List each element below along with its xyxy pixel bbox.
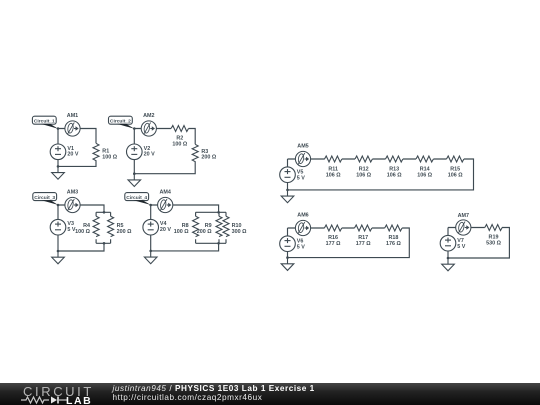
svg-text:Circuit_3: Circuit_3 bbox=[34, 195, 55, 201]
svg-text:176 Ω: 176 Ω bbox=[386, 241, 401, 247]
svg-text:20 V: 20 V bbox=[160, 227, 171, 233]
svg-text:300 Ω: 300 Ω bbox=[232, 229, 247, 235]
svg-text:20 V: 20 V bbox=[144, 152, 155, 158]
svg-text:106 Ω: 106 Ω bbox=[448, 173, 463, 179]
svg-text:AM7: AM7 bbox=[458, 213, 469, 219]
svg-text:177 Ω: 177 Ω bbox=[356, 241, 371, 247]
svg-text:5 V: 5 V bbox=[297, 175, 305, 181]
svg-text:5 V: 5 V bbox=[457, 244, 465, 250]
svg-text:AM5: AM5 bbox=[297, 143, 308, 149]
svg-text:177 Ω: 177 Ω bbox=[326, 241, 341, 247]
svg-text:20 V: 20 V bbox=[67, 152, 78, 158]
svg-text:Circuit_4: Circuit_4 bbox=[126, 195, 147, 201]
svg-text:100 Ω: 100 Ω bbox=[75, 229, 90, 235]
svg-text:100 Ω: 100 Ω bbox=[172, 141, 187, 147]
svg-text:106 Ω: 106 Ω bbox=[417, 173, 432, 179]
svg-text:106 Ω: 106 Ω bbox=[387, 173, 402, 179]
svg-text:530 Ω: 530 Ω bbox=[486, 240, 501, 246]
svg-text:AM6: AM6 bbox=[297, 212, 308, 218]
svg-text:AM3: AM3 bbox=[67, 189, 78, 195]
svg-text:AM4: AM4 bbox=[160, 189, 171, 195]
svg-text:AM2: AM2 bbox=[143, 113, 154, 119]
svg-text:200 Ω: 200 Ω bbox=[201, 155, 216, 161]
svg-text:106 Ω: 106 Ω bbox=[356, 173, 371, 179]
svg-text:200 Ω: 200 Ω bbox=[117, 229, 132, 235]
svg-text:5 V: 5 V bbox=[297, 244, 305, 250]
svg-text:100 Ω: 100 Ω bbox=[174, 229, 189, 235]
svg-text:200 Ω: 200 Ω bbox=[197, 229, 212, 235]
svg-text:Circuit_1: Circuit_1 bbox=[34, 118, 55, 124]
svg-text:100 Ω: 100 Ω bbox=[102, 154, 117, 160]
svg-text:106 Ω: 106 Ω bbox=[326, 173, 341, 179]
svg-text:Circuit_2: Circuit_2 bbox=[110, 118, 131, 124]
svg-text:AM1: AM1 bbox=[67, 113, 78, 119]
